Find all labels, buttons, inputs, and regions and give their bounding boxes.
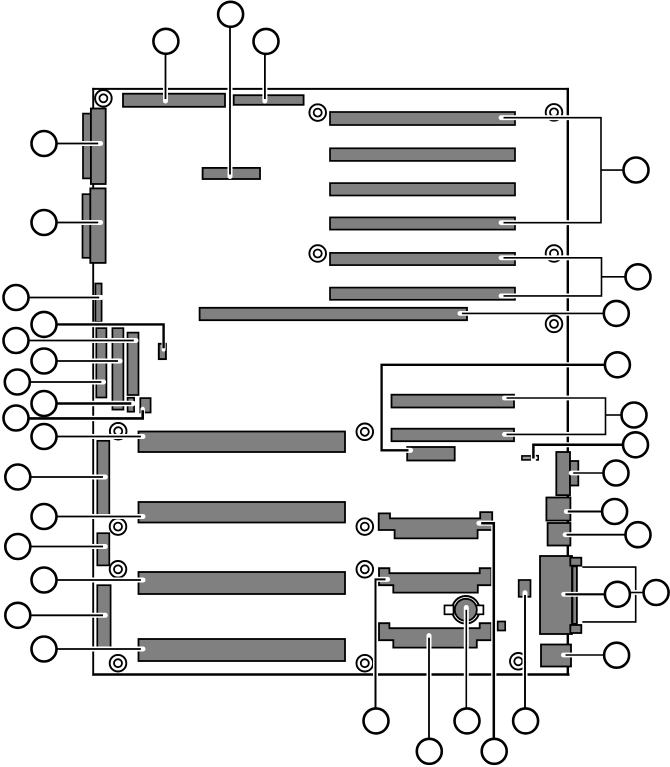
leader left callout 2 to edge connector B bbox=[44, 220, 101, 225]
callout circle right 7 comp1 bbox=[604, 461, 629, 486]
leader left callout 5 to bar C bbox=[15, 338, 136, 343]
mounting hole left of DIMM bank 2 bbox=[309, 245, 326, 262]
jumper block flat bar bbox=[522, 456, 531, 460]
mounting hole right of slot L1 bbox=[357, 424, 374, 441]
board outline bottom edge bbox=[92, 673, 569, 676]
small edge bar upper left bbox=[95, 284, 101, 323]
callout circle left 2 bbox=[32, 210, 57, 235]
DIMM slot 1 bbox=[330, 112, 515, 125]
left edge connector bar C1 bbox=[97, 441, 109, 515]
callout circle left 9 bbox=[4, 406, 29, 431]
left edge connector B main body bbox=[90, 188, 105, 263]
callout circle left 15 bbox=[5, 603, 30, 628]
leader from top callout 3 to bar T2 bbox=[262, 42, 267, 101]
small connector U right of cluster bbox=[159, 344, 166, 359]
callout circle bottom 4 bbox=[482, 739, 507, 764]
mid-right slot bar A2 bbox=[392, 395, 515, 408]
leader left callout 10 to slot L1 bbox=[44, 434, 143, 439]
small square near NIC bbox=[498, 622, 506, 631]
NIC connector main body bbox=[540, 556, 572, 634]
callout circle right 4 big bracket bbox=[605, 352, 630, 377]
leader left callout 7 to bar A bbox=[17, 380, 103, 385]
mounting hole right of DIMM bank 2 bbox=[546, 245, 563, 262]
leader hat connector 3 down to bottom callout bbox=[427, 636, 432, 740]
mounting hole left above slot L3 bbox=[110, 561, 127, 578]
callout circle right 5 slots A2 B2 bbox=[622, 403, 647, 428]
leader left callout 4 elbow to connector U bbox=[44, 324, 164, 349]
link line between callout pair bbox=[631, 590, 643, 595]
mounting hole right of DIMM bank 1 bbox=[546, 104, 563, 121]
small bar below bracket bbox=[407, 447, 455, 461]
callout circle bottom 2 bbox=[417, 739, 442, 764]
expansion slot L2 bbox=[139, 502, 346, 523]
mounting hole top-left corner bbox=[95, 90, 112, 107]
callout circle right 9 comp3 bbox=[626, 522, 651, 547]
DIMM slot 2 bbox=[330, 148, 515, 161]
callout circle right 12 comp4 bbox=[604, 643, 629, 668]
leader long connector bar to right callout bbox=[460, 311, 603, 316]
board outline right edge bbox=[567, 88, 569, 676]
top panel header bar T2 bbox=[234, 95, 304, 105]
DIMM slot 4 bbox=[330, 217, 515, 229]
NIC connector bottom tab bbox=[570, 625, 581, 633]
leader hat connector 2 down to bottom callout bbox=[376, 579, 388, 709]
callout circle right 6 jumper bbox=[623, 432, 648, 457]
leader left callout 8 to small header below C bbox=[44, 401, 133, 406]
callout circle left 1 bbox=[32, 131, 57, 156]
rear connector comp2 bbox=[546, 498, 570, 521]
vertical header bar B bbox=[112, 328, 123, 410]
callout circle left 12 bbox=[32, 504, 57, 529]
callout circle left 5 bbox=[4, 328, 29, 353]
leader left callout 6 to bar B bbox=[44, 359, 120, 364]
expansion slot L4 bbox=[139, 639, 346, 661]
bracket DIMM bank 1 bbox=[501, 118, 623, 223]
callout circle left 4 bbox=[32, 312, 57, 337]
board outline top edge bbox=[92, 88, 569, 90]
mounting hole bottom right bbox=[510, 653, 527, 670]
mounting hole right below slot L4 bbox=[357, 655, 374, 672]
bracket box NIC connector bbox=[582, 567, 635, 622]
left edge connector A rear block bbox=[83, 114, 91, 179]
hat connector 2 bbox=[379, 568, 491, 592]
callout circle right 8 comp2 bbox=[602, 499, 627, 524]
left edge connector bar C2 bbox=[97, 533, 109, 565]
callout circle top 3 bbox=[254, 29, 279, 54]
callout circle bottom 3 bbox=[455, 708, 480, 733]
vertical header bar C bbox=[128, 333, 139, 395]
left edge connector bar C3 bbox=[97, 585, 110, 648]
callout circle right 2 DIMM bank 2 bbox=[626, 264, 651, 289]
DIMM slot 6 bbox=[330, 288, 515, 300]
callout circle left 6 bbox=[32, 349, 57, 374]
battery outer ring bbox=[452, 596, 480, 624]
small header below bar C bbox=[128, 398, 135, 412]
mid-right slot bar B2 bbox=[392, 429, 515, 442]
top panel header bar T1 bbox=[123, 94, 225, 107]
rear connector stack comp1 tall bbox=[556, 452, 570, 495]
callout circle left 7 bbox=[5, 370, 30, 395]
NIC connector top tab bbox=[570, 558, 581, 566]
callout circle top 2 bbox=[218, 2, 243, 27]
rear connector stack comp1 side bbox=[570, 461, 578, 486]
small header bar T3 bbox=[203, 168, 260, 179]
leader battery down to bottom callout bbox=[464, 608, 469, 710]
expansion slot L3 bbox=[139, 572, 346, 594]
leader left callout 3 to small edge bar bbox=[15, 295, 101, 300]
bracket mid-right slots A2 B2 bbox=[504, 398, 621, 434]
callout circle left 14 bbox=[32, 568, 57, 593]
leader rear comp2 to callout bbox=[566, 509, 601, 514]
leader hat connector 1 elbow down to bottom callout bbox=[479, 523, 494, 740]
callout circle left 13 bbox=[5, 534, 30, 559]
left edge connector B rear block bbox=[83, 194, 91, 258]
callout circle bottom 1 bbox=[364, 708, 389, 733]
callout circle left 8 bbox=[32, 391, 57, 416]
leader rear comp1 to callout bbox=[571, 471, 603, 476]
battery cell bbox=[455, 599, 477, 621]
leader left callout 1 to edge connector A bbox=[44, 141, 101, 146]
board outline left edge bbox=[92, 88, 94, 676]
leader rear comp4 to callout bbox=[563, 653, 603, 658]
mounting hole right below slot L2 bbox=[357, 518, 374, 535]
vertical header bar A bbox=[96, 328, 106, 397]
callout circle right 1 DIMM bank 1 bbox=[624, 158, 649, 183]
left edge connector A main body bbox=[91, 109, 106, 185]
mounting hole left of DIMM bank 1 bbox=[309, 104, 326, 121]
rear connector comp3 bbox=[548, 523, 571, 546]
mounting hole right above slot L3 bbox=[357, 561, 374, 578]
leader rear comp3 to callout bbox=[565, 532, 625, 537]
callout circle left 16 bbox=[32, 637, 57, 662]
rear connector comp4 bottom bbox=[541, 645, 571, 667]
DIMM slot 3 bbox=[330, 183, 515, 195]
mounting hole below DIMM bank 2 right bbox=[546, 316, 563, 333]
NIC connector face strip bbox=[572, 566, 577, 624]
battery holder right tab bbox=[476, 605, 483, 614]
leader left callout 14 to slot L3 bbox=[44, 578, 143, 583]
leader jumper block elbow bbox=[533, 445, 622, 460]
small square header right of bar C bbox=[140, 398, 150, 412]
jumper block open square bbox=[535, 456, 539, 460]
callout circle right 3 long bar bbox=[604, 301, 629, 326]
leader left callout 9 elbow to square header bbox=[15, 409, 143, 420]
leader from top callout 2 to bar T3 bbox=[228, 15, 233, 177]
callout circle left 3 bbox=[4, 285, 29, 310]
leader left callout 13 to edge bar C2 bbox=[18, 544, 106, 549]
DIMM slot 5 bbox=[330, 253, 515, 265]
callout circle right 10 NIC inner bbox=[605, 582, 630, 607]
callout circle left 11 bbox=[5, 465, 30, 490]
leader left callout 11 to edge bar C1 bbox=[18, 475, 106, 480]
mounting hole left of slot L1 bbox=[110, 423, 127, 440]
leader left callout 15 to edge bar C3 bbox=[18, 613, 106, 618]
leader NIC to callout pair bbox=[564, 592, 605, 597]
leader small header rect down to bottom callout bbox=[523, 593, 528, 710]
expansion slot L1 bbox=[139, 432, 346, 453]
hat connector 1 bbox=[379, 512, 493, 538]
callout circle top 1 bbox=[153, 29, 178, 54]
long connector bar mid board bbox=[200, 308, 467, 320]
mounting hole left below slot L4 bbox=[110, 655, 127, 672]
bracket DIMM bank 2 bbox=[501, 258, 625, 296]
small header rect left of NIC bbox=[519, 580, 531, 597]
callout circle left 10 bbox=[32, 424, 57, 449]
callout circle bottom 5 bbox=[513, 708, 538, 733]
callout circle right 11 NIC outer bbox=[644, 580, 669, 605]
leader left callout 16 to slot L4 bbox=[44, 647, 143, 652]
battery holder left tab bbox=[445, 605, 454, 614]
mounting hole left below slot L2 bbox=[110, 518, 127, 535]
big bracket around mid-right slots bbox=[382, 365, 605, 451]
hat connector 3 bbox=[379, 623, 491, 647]
leader from top callout 1 to bar T1 bbox=[163, 42, 168, 101]
leader left callout 12 to slot L2 bbox=[44, 514, 143, 519]
